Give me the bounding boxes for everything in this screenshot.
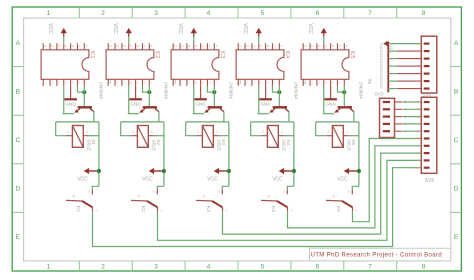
svg-text:VCC: VCC	[389, 45, 393, 53]
IC5 DIP-14 body	[301, 50, 349, 80]
svg-text:C: C	[15, 137, 20, 144]
svg-text:2: 2	[67, 130, 69, 134]
ground GND ch5	[330, 86, 332, 99]
svg-text:A: A	[16, 40, 21, 47]
svg-text:B: B	[454, 88, 459, 95]
svg-text:o: o	[153, 190, 155, 194]
IC5 pins	[302, 43, 304, 50]
junction dot ch2	[147, 90, 151, 94]
relay coil K2 G5LE	[137, 126, 148, 148]
wire IC1 pin4 to transistor emitter	[63, 86, 65, 114]
svg-text:VCC: VCC	[177, 23, 183, 34]
svg-text:K5: K5	[351, 140, 356, 146]
transistor T1 2N3904	[78, 106, 92, 108]
ground GND ch1	[70, 86, 72, 99]
relay coil K3 G5LE	[202, 126, 213, 148]
svg-text:IC5: IC5	[349, 51, 355, 59]
svg-text:o: o	[225, 209, 227, 213]
wire collector down ch5	[353, 112, 355, 122]
wire to switch contact ch3	[222, 186, 229, 189]
svg-text:D: D	[454, 186, 459, 193]
IC4 pins	[237, 43, 239, 50]
svg-text:2N3904: 2N3904	[163, 82, 169, 99]
wire to switch contact ch2	[157, 186, 164, 189]
svg-text:7: 7	[417, 87, 419, 91]
wire IC5 pin6 to junction	[337, 86, 344, 92]
transistor T2 2N3904	[143, 106, 157, 108]
wire collector down ch4	[288, 112, 290, 122]
frame column ticks	[78, 7, 80, 18]
svg-text:E: E	[454, 234, 459, 241]
IC4 DIP-14 body	[236, 50, 284, 80]
wire IC3 pin7 to transistor base	[213, 86, 215, 106]
IC1 DIP-14 body	[41, 50, 89, 80]
relay coil K5 G5LE	[332, 126, 343, 148]
svg-text:K4: K4	[270, 206, 276, 212]
svg-text:o: o	[355, 209, 357, 213]
SV3 pin stubs and numbers	[395, 101, 403, 103]
svg-text:IC2: IC2	[154, 51, 160, 59]
supply VCC left arrow ch4	[292, 169, 296, 173]
svg-text:7: 7	[368, 10, 372, 17]
wire horizontal node ch5	[316, 121, 359, 123]
supply VCC arrow at bus top	[387, 43, 389, 45]
svg-text:9: 9	[417, 159, 419, 163]
wire collector down ch3	[223, 112, 225, 122]
svg-text:5: 5	[261, 10, 265, 17]
wire IC2 pin4 to transistor emitter	[128, 86, 130, 114]
svg-text:2N3904: 2N3904	[228, 82, 234, 99]
svg-text:GND: GND	[195, 101, 206, 106]
svg-text:1: 1	[417, 42, 419, 46]
wire IC4 pin6 to junction	[272, 86, 279, 92]
svg-text:7: 7	[368, 264, 372, 271]
svg-text:VCC: VCC	[77, 176, 88, 182]
supply VCC left arrow ch2	[162, 169, 166, 173]
svg-text:2: 2	[262, 130, 264, 134]
wire switch K5 to SV5	[353, 139, 422, 222]
svg-text:K2: K2	[156, 140, 161, 146]
svg-text:VCC: VCC	[242, 23, 248, 34]
wire IC2 pin7 to transistor base	[148, 86, 150, 106]
svg-text:6: 6	[316, 10, 320, 17]
svg-text:T5: T5	[366, 79, 372, 85]
svg-text:VCC: VCC	[142, 176, 153, 182]
svg-text:4: 4	[417, 122, 419, 126]
svg-text:1: 1	[346, 130, 348, 134]
svg-text:2: 2	[101, 10, 105, 17]
junction dot ch3	[212, 90, 216, 94]
switch K3 relay contact	[221, 190, 223, 195]
svg-text:K3: K3	[221, 140, 226, 146]
svg-text:4: 4	[207, 264, 211, 271]
junction dot ch4	[277, 90, 281, 94]
wire switch K4 to SV5	[288, 146, 422, 228]
wire IC4 pin7 to transistor base	[278, 86, 280, 106]
ground GND ch2	[135, 86, 137, 99]
svg-text:o: o	[95, 209, 97, 213]
wire to relay pin2 ch4	[251, 122, 262, 136]
switch K1 relay contact	[91, 190, 93, 195]
svg-text:2N3904: 2N3904	[293, 82, 299, 99]
wire to switch contact ch4	[287, 186, 294, 189]
svg-text:2N3904: 2N3904	[98, 82, 104, 99]
wire IC1 pin7 to transistor base	[83, 86, 85, 106]
svg-text:o: o	[160, 209, 162, 213]
supply VCC arrow above IC2	[128, 36, 130, 43]
wire IC5 pin4 to transistor emitter	[323, 86, 325, 114]
junction dot ch5	[342, 90, 346, 94]
wire to switch contact ch1	[92, 186, 99, 189]
svg-text:5: 5	[261, 264, 265, 271]
wires bus to SV4	[388, 43, 421, 45]
wire IC3 pin4 to transistor emitter	[193, 86, 195, 114]
transistor T4 2N3904	[273, 106, 287, 108]
wire relay pin1 to VCC junction ch2	[154, 135, 164, 137]
svg-text:G5LE: G5LE	[152, 140, 157, 152]
wire IC2 pin6 to junction	[142, 86, 149, 92]
connector SV5 header box	[421, 97, 437, 173]
svg-text:C: C	[454, 137, 459, 144]
wire relay pin1 to VCC junction ch1	[89, 135, 99, 137]
connector SV4 pin pads	[424, 42, 430, 44]
svg-text:1: 1	[281, 130, 283, 134]
supply VCC arrow above IC3	[193, 36, 195, 43]
svg-text:7: 7	[417, 144, 419, 148]
junction dot ch1	[82, 90, 86, 94]
supply VCC arrow above IC1	[63, 36, 65, 43]
svg-text:8: 8	[422, 10, 426, 17]
svg-text:IC1: IC1	[89, 51, 95, 59]
wire collector down ch2	[158, 112, 160, 122]
svg-text:1: 1	[86, 130, 88, 134]
wire switch K2 to SV5	[158, 160, 422, 240]
title block	[310, 247, 451, 249]
wire to switch contact ch5	[352, 186, 359, 189]
svg-text:o: o	[348, 190, 350, 194]
IC3 pins	[172, 43, 174, 50]
svg-text:2N3904: 2N3904	[358, 82, 364, 99]
wire horizontal node ch3	[186, 121, 229, 123]
sheet inner border	[24, 18, 451, 261]
svg-text:o: o	[290, 209, 292, 213]
supply VCC left arrow ch5	[357, 169, 361, 173]
IC2 pins	[107, 43, 109, 50]
svg-text:GND: GND	[260, 101, 271, 106]
svg-text:3: 3	[154, 264, 158, 271]
svg-text:o: o	[88, 190, 90, 194]
wire relay pin1 to VCC junction ch4	[284, 135, 294, 137]
wire IC1 pin6 to junction	[77, 86, 84, 92]
svg-text:3: 3	[417, 115, 419, 119]
IC2 DIP-14 body	[106, 50, 154, 80]
svg-text:6: 6	[417, 137, 419, 141]
frame row ticks	[12, 66, 23, 68]
svg-text:2: 2	[327, 130, 329, 134]
supply VCC left arrow ch1	[97, 169, 101, 173]
ground GND ch4	[265, 86, 267, 99]
wire horizontal node ch2	[121, 121, 164, 123]
supply VCC arrow above IC5	[323, 36, 325, 43]
svg-text:2: 2	[132, 130, 134, 134]
svg-text:o: o	[218, 190, 220, 194]
svg-text:o: o	[283, 190, 285, 194]
wire horizontal node ch1	[56, 121, 99, 123]
svg-text:IC4: IC4	[284, 51, 290, 59]
svg-text:1: 1	[151, 130, 153, 134]
svg-text:1: 1	[47, 264, 51, 271]
svg-text:K5: K5	[335, 206, 341, 212]
connector SV5 pin pads	[424, 101, 430, 103]
connector SV3 pin pads	[383, 101, 390, 103]
svg-text:3: 3	[417, 57, 419, 61]
wire IC3 pin6 to junction	[207, 86, 214, 92]
wire to relay pin2 ch5	[316, 122, 327, 136]
svg-text:VCC: VCC	[112, 23, 118, 34]
supply VCC left arrow ch3	[227, 169, 231, 173]
svg-text:5: 5	[417, 72, 419, 76]
svg-text:8: 8	[422, 264, 426, 271]
transistor T5 2N3904	[338, 106, 352, 108]
IC3 DIP-14 body	[171, 50, 219, 80]
switch K2 relay contact	[156, 190, 158, 195]
wire to relay pin2 ch3	[186, 122, 197, 136]
wire to relay pin2 ch1	[56, 122, 67, 136]
svg-text:G5LE: G5LE	[87, 140, 92, 152]
svg-text:D: D	[15, 186, 20, 193]
wires SV3 to SV5	[403, 101, 421, 103]
svg-text:SV3: SV3	[374, 92, 383, 98]
svg-text:10: 10	[415, 166, 419, 170]
relay coil K4 G5LE	[267, 126, 278, 148]
svg-text:1: 1	[47, 10, 51, 17]
wire to relay pin2 ch2	[121, 122, 132, 136]
svg-text:5: 5	[417, 129, 419, 133]
svg-text:VCC: VCC	[337, 176, 348, 182]
svg-text:4: 4	[417, 64, 419, 68]
svg-text:K3: K3	[205, 206, 211, 212]
wire switch K3 to SV5	[223, 153, 422, 234]
bus bar GND/D0-D5	[387, 42, 389, 93]
svg-text:4: 4	[207, 10, 211, 17]
svg-text:E: E	[16, 234, 21, 241]
supply VCC arrow above IC4	[258, 36, 260, 43]
svg-text:G5LE: G5LE	[282, 140, 287, 152]
svg-text:K1: K1	[91, 140, 96, 146]
svg-text:GNDD5D4D3D2D1D0GND: GNDD5D4D3D2D1D0GND	[379, 43, 383, 89]
ground GND ch3	[200, 86, 202, 99]
svg-text:6: 6	[316, 264, 320, 271]
switch K4 relay contact	[286, 190, 288, 195]
svg-text:2: 2	[197, 130, 199, 134]
wire IC5 pin7 to transistor base	[343, 86, 345, 106]
svg-text:IC3: IC3	[219, 51, 225, 59]
svg-text:GND: GND	[325, 101, 336, 106]
svg-text:VCC: VCC	[307, 23, 313, 34]
svg-text:1: 1	[216, 130, 218, 134]
wire relay pin1 to VCC junction ch5	[349, 135, 359, 137]
svg-text:UTM PhD Research Project - Con: UTM PhD Research Project - Control Board	[311, 252, 443, 258]
svg-text:GND: GND	[65, 101, 76, 106]
svg-text:SV5: SV5	[425, 178, 435, 184]
svg-text:VCC: VCC	[272, 176, 283, 182]
connector SV4 header box	[421, 36, 437, 93]
svg-text:VCC: VCC	[47, 23, 53, 34]
svg-text:1: 1	[417, 100, 419, 104]
wire switch K1 to SV5	[93, 168, 422, 247]
svg-text:GND: GND	[130, 101, 141, 106]
connector SV3 header box	[380, 98, 395, 137]
svg-text:2: 2	[417, 49, 419, 53]
svg-text:A: A	[454, 40, 459, 47]
transistor T3 2N3904	[208, 106, 222, 108]
wire relay pin1 to VCC junction ch3	[219, 135, 229, 137]
svg-text:2: 2	[417, 108, 419, 112]
svg-text:6: 6	[417, 79, 419, 83]
svg-text:8: 8	[417, 151, 419, 155]
relay coil K1 G5LE	[72, 126, 83, 148]
svg-text:G5LE: G5LE	[347, 140, 352, 152]
IC1 pins	[42, 43, 44, 50]
svg-text:2: 2	[101, 264, 105, 271]
svg-text:VCC: VCC	[207, 176, 218, 182]
wire collector down ch1	[93, 112, 95, 122]
wire horizontal node ch4	[251, 121, 294, 123]
arrow head	[383, 41, 387, 46]
svg-text:G5LE: G5LE	[217, 140, 222, 152]
svg-text:B: B	[16, 88, 21, 95]
svg-text:3: 3	[154, 10, 158, 17]
switch K5 relay contact	[351, 190, 353, 195]
svg-text:K2: K2	[140, 206, 146, 212]
wire IC4 pin4 to transistor emitter	[258, 86, 260, 114]
svg-text:K1: K1	[75, 206, 81, 212]
svg-text:K4: K4	[286, 140, 291, 146]
